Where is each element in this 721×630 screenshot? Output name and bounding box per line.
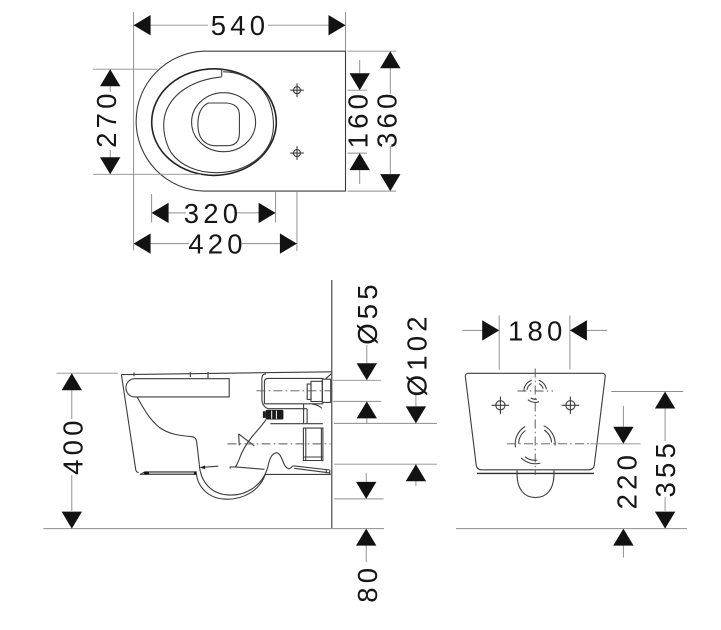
- center line vertical: [534, 369, 536, 476]
- svg-text:400: 400: [58, 416, 89, 474]
- svg-text:320: 320: [184, 198, 242, 229]
- dimension 540: [134, 10, 346, 41]
- trap outer curve: [196, 474, 265, 500]
- flange chamfer: [325, 374, 331, 379]
- rim strip right cap: [194, 472, 196, 475]
- svg-text:180: 180: [508, 315, 566, 346]
- extension line right (540): [345, 12, 347, 51]
- water level meniscus tick: [200, 465, 205, 469]
- bowl back S curve: [235, 420, 266, 468]
- inlet pipe collar: [307, 384, 311, 399]
- extension line right (420): [296, 192, 298, 251]
- wall line: [331, 280, 333, 528]
- extension lines 360: [348, 51, 397, 191]
- floor line (rear): [456, 528, 687, 530]
- svg-text:270: 270: [91, 89, 122, 147]
- extension line 220: [591, 443, 641, 445]
- line above outlet block: [270, 423, 323, 425]
- rim inner spiral: [164, 72, 274, 173]
- dimension 160: [343, 60, 374, 184]
- front face: [121, 375, 138, 473]
- dimension 400: [58, 373, 89, 528]
- dimension D55: [352, 280, 383, 424]
- mounting hole left (rear): [492, 397, 510, 415]
- inlet crosshair (rear): [518, 390, 554, 392]
- svg-text:Ø102: Ø102: [401, 312, 432, 396]
- flush pipe: [304, 404, 308, 424]
- rim side rounded rectangle: [126, 379, 229, 397]
- water level line in outlet channel: [230, 467, 264, 469]
- dimension 220: [611, 406, 642, 558]
- svg-text:355: 355: [650, 439, 681, 497]
- rear bottom inner line: [477, 472, 594, 474]
- svg-text:80: 80: [352, 564, 383, 603]
- outlet hidden circle: [515, 426, 555, 464]
- rim strip left cap: [144, 472, 149, 475]
- inlet pipe (side): [311, 381, 322, 401]
- svg-text:360: 360: [371, 89, 402, 147]
- extension lines 320: [152, 192, 276, 223]
- floor line: [44, 528, 385, 530]
- outlet centerline (rear): [507, 443, 590, 445]
- mounting hole crosshair (top): [290, 83, 304, 97]
- svg-text:540: 540: [211, 10, 269, 41]
- bottom front rim strip: [140, 472, 197, 475]
- trap inner curve: [199, 453, 294, 495]
- rim outer ellipse: [152, 69, 277, 176]
- mounting hole crosshair (bottom): [290, 146, 304, 160]
- extension lines 160: [348, 90, 368, 153]
- outlet block: [303, 428, 323, 460]
- water level line in bowl: [201, 466, 219, 467]
- bowl interior front curve: [137, 397, 199, 464]
- extension lines 270: [93, 69, 201, 174]
- rim spiral notch: [221, 70, 223, 77]
- bowl opening ellipse: [192, 93, 256, 152]
- dimension D102: [401, 312, 432, 486]
- extension line bottom of bowl: [334, 498, 384, 500]
- svg-text:Ø55: Ø55: [352, 280, 383, 345]
- top reference extension line: [57, 372, 119, 374]
- rear body trapezoid: [465, 373, 605, 470]
- dimension 270: [91, 69, 122, 174]
- dimension 320: [152, 198, 276, 229]
- svg-text:220: 220: [611, 451, 642, 509]
- toilet top edge: [121, 372, 331, 375]
- svg-text:420: 420: [188, 229, 246, 260]
- back corner arc under flange: [312, 404, 322, 408]
- dimension 180: [462, 315, 607, 346]
- inlet flange (side): [322, 379, 330, 402]
- tick marks on top edge: [134, 372, 208, 378]
- dimension 355: [650, 392, 681, 529]
- extension lines D55: [333, 380, 381, 401]
- outlet centerline: [228, 443, 331, 445]
- tank bottom line: [265, 403, 324, 405]
- inlet centerline: [256, 390, 332, 392]
- seat hinge fixing (black): [263, 411, 266, 418]
- extension lines D102: [334, 423, 437, 464]
- back bottom slant lines: [294, 466, 330, 475]
- ceramic bottom back line: [265, 473, 331, 475]
- water surface outline: [198, 103, 240, 146]
- extension line left (540/420): [133, 12, 135, 251]
- dimension 360: [371, 51, 402, 191]
- svg-text:160: 160: [343, 90, 374, 148]
- weir detail: [239, 434, 255, 446]
- extension lines 180: [499, 316, 570, 370]
- dimension 420: [134, 229, 297, 260]
- outline of ceramic body (top view, stadium shape): [136, 51, 345, 191]
- mounting hole right (rear): [562, 397, 580, 415]
- extension line 355: [611, 391, 683, 393]
- inlet hidden circle: [524, 380, 547, 402]
- dimension 80: [352, 473, 383, 603]
- tank front wall inner / lid line: [264, 378, 323, 403]
- outlet pipe below: [517, 471, 554, 498]
- tank front wall outer: [262, 374, 307, 409]
